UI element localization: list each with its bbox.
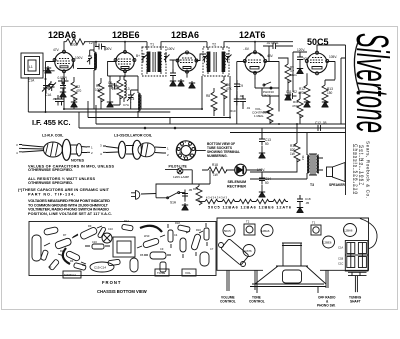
svg-text:R10: R10 bbox=[230, 109, 236, 113]
volume control R14 bbox=[252, 96, 279, 124]
svg-text:R15: R15 bbox=[193, 187, 199, 191]
svg-text:3: 3 bbox=[16, 143, 18, 147]
label tone control bbox=[249, 296, 265, 304]
cap C7A trimmer bbox=[123, 90, 135, 107]
socket 12AT6 top bbox=[243, 245, 255, 257]
svg-text:Set No. 1067: Set No. 1067 bbox=[360, 145, 365, 185]
svg-text:4700: 4700 bbox=[70, 43, 77, 47]
svg-text:12BA6: 12BA6 bbox=[261, 229, 270, 233]
svg-text:CONTROL: CONTROL bbox=[220, 300, 236, 304]
label tuning shaft bbox=[349, 296, 362, 304]
wire power line bbox=[156, 170, 210, 202]
socket 50C5 top bbox=[223, 225, 235, 237]
pilot light bbox=[165, 164, 192, 184]
cap C14 electrolytic bbox=[257, 168, 271, 197]
ground under V2 bbox=[107, 100, 113, 107]
svg-text:PILOT-LITE: PILOT-LITE bbox=[169, 164, 188, 168]
svg-text:R16: R16 bbox=[196, 228, 201, 232]
svg-text:-.6V.: -.6V. bbox=[243, 47, 250, 51]
coil L3 osc winding bbox=[131, 76, 141, 118]
cap C12 bbox=[314, 121, 327, 131]
cap C line filter bbox=[182, 188, 193, 210]
speaker top view bbox=[250, 243, 326, 293]
cap C5 pair bbox=[52, 95, 65, 106]
svg-text:T3: T3 bbox=[310, 183, 314, 187]
svg-text:1: 1 bbox=[185, 141, 187, 144]
svg-text:50: 50 bbox=[265, 142, 269, 146]
wire right rail bbox=[317, 45, 346, 195]
antenna loop L1 bbox=[21, 53, 43, 83]
ground under V5 right bbox=[322, 100, 328, 107]
svg-text:2: 2 bbox=[167, 153, 169, 157]
resistor R16 820 bbox=[250, 133, 307, 173]
svg-text:Silvertone: Silvertone bbox=[347, 33, 398, 133]
svg-text:R9: R9 bbox=[88, 224, 92, 228]
svg-text:C1A: C1A bbox=[338, 246, 343, 250]
svg-text:OTHERWISE SPECIFIED.: OTHERWISE SPECIFIED. bbox=[28, 168, 73, 172]
notes text bbox=[18, 159, 114, 216]
svg-text:R4: R4 bbox=[70, 259, 74, 263]
resistor R9 4.7 MEG bbox=[278, 58, 298, 100]
svg-text:CONTROL: CONTROL bbox=[249, 300, 265, 304]
svg-text:12BE6: 12BE6 bbox=[323, 241, 332, 245]
svg-text:JACK: JACK bbox=[263, 94, 271, 98]
resistor R15 heater drop bbox=[193, 184, 202, 205]
resistor R2 bbox=[71, 77, 82, 109]
svg-text:SELENIUM: SELENIUM bbox=[228, 180, 247, 184]
svg-text:50C5 12BA6 12BA6 12BE6 12AT6: 50C5 12BA6 12BA6 12BE6 12AT6 bbox=[208, 205, 291, 209]
svg-text:R4: R4 bbox=[72, 36, 76, 40]
svg-text:12BA6: 12BA6 bbox=[344, 229, 353, 233]
L3 coil drawing bbox=[100, 140, 169, 159]
svg-text:SPEAKER: SPEAKER bbox=[329, 183, 346, 187]
cap C2 top bbox=[95, 42, 106, 51]
cap C8 bbox=[170, 69, 176, 86]
svg-text:12AT6: 12AT6 bbox=[244, 249, 252, 253]
tube V5 50C5 bbox=[297, 48, 337, 75]
svg-text:FRONT: FRONT bbox=[102, 280, 121, 285]
cap C10 bbox=[286, 90, 297, 99]
svg-text:.01: .01 bbox=[246, 106, 251, 110]
svg-text:T1: T1 bbox=[150, 43, 154, 47]
transformer T3 top bbox=[219, 239, 250, 267]
selenium rectifier bbox=[227, 164, 262, 188]
label off radio phono sw bbox=[317, 296, 336, 308]
svg-text:1: 1 bbox=[167, 147, 169, 151]
svg-text:C4: C4 bbox=[174, 233, 178, 237]
svg-text:C3: C3 bbox=[48, 265, 52, 269]
ground antenna bbox=[45, 66, 51, 73]
tube V2 12BE6 bbox=[104, 47, 140, 73]
svg-text:4: 4 bbox=[16, 151, 18, 155]
svg-text:SHAFT: SHAFT bbox=[350, 300, 361, 304]
L2 coil drawing bbox=[16, 139, 93, 160]
cap C13 electrolytic bbox=[259, 133, 271, 159]
svg-text:.02: .02 bbox=[239, 94, 244, 98]
svg-text:.05: .05 bbox=[305, 201, 310, 205]
socket 12BA6 top right bbox=[344, 224, 357, 237]
coil L2 RF bbox=[87, 41, 97, 109]
svg-text:1W: 1W bbox=[213, 173, 218, 177]
Silvertone swash bbox=[354, 42, 359, 92]
cap C15 bbox=[263, 41, 293, 62]
svg-text:C10: C10 bbox=[108, 227, 113, 231]
resistor R18 bbox=[208, 163, 233, 177]
svg-text:12BE6: 12BE6 bbox=[112, 30, 140, 40]
resistor R11 4700 bbox=[292, 92, 303, 124]
wire screen bus bbox=[43, 62, 95, 113]
svg-text:50C5: 50C5 bbox=[307, 37, 329, 47]
svg-text:50C5: 50C5 bbox=[224, 229, 231, 233]
ground under V3 left bbox=[178, 79, 184, 86]
svg-text:4: 4 bbox=[100, 152, 102, 156]
svg-text:.005: .005 bbox=[302, 57, 308, 61]
svg-text:B+: B+ bbox=[136, 54, 140, 58]
socket 12BE6 top bbox=[323, 236, 335, 248]
resistor R6 47K bbox=[221, 76, 233, 116]
cap C18 line ground bbox=[297, 195, 311, 213]
svg-text:R8: R8 bbox=[206, 94, 210, 98]
svg-text:C9: C9 bbox=[239, 84, 243, 88]
svg-text:C15-C14: C15-C14 bbox=[94, 266, 106, 270]
resistor R5 22K bbox=[112, 76, 123, 105]
svg-text:R12: R12 bbox=[124, 219, 129, 223]
svg-text:NUMBERING.: NUMBERING. bbox=[207, 154, 228, 158]
cap C3 bbox=[58, 76, 69, 84]
svg-text:R2: R2 bbox=[60, 249, 64, 253]
svg-text:C1A: C1A bbox=[45, 93, 52, 97]
svg-text:I.F. 455 KC.: I.F. 455 KC. bbox=[32, 118, 71, 127]
junction dots top rail bbox=[95, 41, 256, 43]
tube V1 12BA6 bbox=[53, 48, 83, 73]
svg-text:W10: W10 bbox=[144, 234, 150, 238]
ground under V5 left bbox=[304, 100, 310, 107]
IF transformer T1 bbox=[142, 43, 170, 77]
IF can T1 top bbox=[311, 221, 321, 236]
svg-text:140V.: 140V. bbox=[257, 168, 265, 172]
svg-text:0.05(*): 0.05(*) bbox=[58, 76, 68, 80]
svg-text:4 3 4 3 4 3 4: 4 3 4 3 4 3 4 3 4 3 bbox=[206, 196, 227, 200]
tube V3 12BA6 (IF amp) bbox=[167, 47, 198, 73]
svg-text:C16: C16 bbox=[92, 240, 97, 244]
svg-text:120V.LAMP: 120V.LAMP bbox=[173, 175, 189, 179]
control shafts bbox=[227, 270, 328, 291]
IF transformer T2 bbox=[203, 43, 232, 77]
ground under V3 right bbox=[189, 81, 195, 88]
svg-text:100V.: 100V. bbox=[167, 47, 175, 51]
output transformer T3 bbox=[250, 146, 323, 187]
resistor R13 150 bbox=[322, 62, 335, 105]
svg-text:C7: C7 bbox=[210, 247, 214, 251]
wire AVC bus rails bbox=[28, 71, 345, 128]
svg-text:Chassis 528.210: Chassis 528.210 bbox=[354, 144, 359, 194]
svg-text:1: 1 bbox=[91, 146, 93, 150]
svg-text:.05: .05 bbox=[322, 121, 327, 125]
svg-text:C1C: C1C bbox=[338, 262, 343, 266]
chassis bottom view box bbox=[29, 222, 216, 276]
svg-text:47V.: 47V. bbox=[53, 48, 60, 52]
resistor R8 bbox=[206, 88, 217, 116]
cap R10 coupling bbox=[230, 72, 251, 125]
svg-text:12AT6: 12AT6 bbox=[239, 30, 265, 40]
speaker bbox=[327, 163, 346, 188]
svg-text:R18: R18 bbox=[212, 163, 218, 167]
svg-text:.05: .05 bbox=[52, 97, 57, 101]
svg-text:POSITION, LINE VOLTAGE SET AT: POSITION, LINE VOLTAGE SET AT 117 V.A.C. bbox=[28, 212, 112, 216]
svg-text:C12: C12 bbox=[315, 121, 321, 125]
svg-text:RECTIFIER: RECTIFIER bbox=[227, 185, 246, 189]
svg-text:50: 50 bbox=[265, 181, 269, 185]
wire detector section bbox=[237, 52, 307, 112]
cap C16 bbox=[297, 52, 309, 74]
svg-text:150: 150 bbox=[327, 91, 333, 95]
svg-text:NOTES: NOTES bbox=[71, 159, 85, 163]
heater string bbox=[199, 196, 291, 210]
svg-text:C1A: C1A bbox=[28, 79, 35, 83]
tube V4 12AT6 bbox=[243, 47, 274, 74]
tube socket bottom view bbox=[176, 141, 205, 160]
cap C2 trimmer bbox=[49, 81, 57, 91]
ground under V1 bbox=[71, 100, 77, 107]
socket 12BA6 top bbox=[261, 225, 273, 237]
svg-text:.05: .05 bbox=[188, 188, 193, 192]
credits Sears Roebuck bbox=[354, 141, 371, 198]
svg-text:L2-R.F. COIL: L2-R.F. COIL bbox=[42, 134, 64, 138]
svg-text:47K: 47K bbox=[226, 87, 233, 91]
svg-text:T2: T2 bbox=[246, 220, 250, 224]
bottom view parts bbox=[32, 219, 214, 278]
svg-text:TONE: TONE bbox=[157, 271, 165, 275]
cap C9 bbox=[234, 80, 243, 99]
svg-text:4700: 4700 bbox=[292, 104, 299, 108]
phono switch bbox=[263, 82, 275, 98]
svg-text:C7A: C7A bbox=[123, 103, 129, 107]
cap C1A variable trimmer bbox=[42, 83, 52, 97]
wire B+ bus bbox=[170, 117, 346, 143]
svg-text:L1: L1 bbox=[29, 65, 33, 69]
svg-text:PART NO. TIF-134.: PART NO. TIF-134. bbox=[28, 192, 75, 196]
svg-text:1 MEG.: 1 MEG. bbox=[254, 114, 264, 118]
wire top rail bbox=[64, 42, 293, 53]
svg-text:45V.: 45V. bbox=[267, 54, 274, 58]
label tube socket note bbox=[207, 142, 240, 158]
IF can T2 top bbox=[244, 220, 255, 236]
svg-text:22K: 22K bbox=[112, 87, 119, 91]
svg-text:R6: R6 bbox=[140, 253, 144, 257]
svg-text:Sears, Roebuck & Co.: Sears, Roebuck & Co. bbox=[366, 141, 371, 198]
svg-text:OTHERWISE SPECIFIED.: OTHERWISE SPECIFIED. bbox=[28, 181, 73, 185]
svg-text:T2: T2 bbox=[212, 43, 216, 47]
svg-text:R7: R7 bbox=[63, 233, 67, 237]
tuning capacitor top view bbox=[338, 241, 368, 293]
svg-text:3: 3 bbox=[100, 144, 102, 148]
junction dots bbox=[45, 78, 299, 129]
svg-text:L3: L3 bbox=[126, 87, 130, 91]
label volume control bbox=[220, 296, 236, 304]
cap C6 bbox=[108, 81, 119, 89]
svg-text:VOL: VOL bbox=[185, 271, 191, 275]
svg-text:12BA6: 12BA6 bbox=[171, 30, 199, 40]
cap C4 bbox=[60, 82, 66, 98]
svg-text:1W: 1W bbox=[290, 152, 295, 156]
svg-text:470K: 470K bbox=[298, 91, 306, 95]
svg-text:120V.: 120V. bbox=[297, 48, 305, 52]
svg-text:T1: T1 bbox=[312, 221, 316, 225]
AC plug bbox=[131, 191, 156, 200]
svg-text:PRI.: PRI. bbox=[301, 155, 305, 160]
chassis top view box bbox=[217, 218, 377, 270]
resistor R4 bbox=[66, 36, 85, 47]
svg-text:CHASSIS BOTTOM VIEW: CHASSIS BOTTOM VIEW bbox=[97, 289, 147, 294]
coil L3 oscillator bbox=[124, 76, 130, 102]
wire T1 to V3 bbox=[170, 54, 204, 72]
svg-text:PHONO SW.: PHONO SW. bbox=[317, 304, 336, 308]
resistor R12 470K bbox=[298, 73, 310, 104]
wire osc section bbox=[108, 62, 138, 110]
svg-text:.02 MFD.: .02 MFD. bbox=[266, 41, 279, 45]
svg-text:R18: R18 bbox=[175, 221, 180, 225]
resistor R3 100K bbox=[95, 78, 104, 109]
svg-text:C1B: C1B bbox=[338, 257, 343, 261]
svg-text:C9: C9 bbox=[160, 247, 164, 251]
svg-text:470: 470 bbox=[76, 89, 82, 93]
svg-text:105V.: 105V. bbox=[329, 55, 337, 59]
svg-text:100V.: 100V. bbox=[75, 56, 83, 60]
switch S1A bbox=[156, 192, 180, 205]
svg-text:S1A: S1A bbox=[170, 201, 177, 205]
svg-text:SWITCH: SWITCH bbox=[64, 273, 76, 277]
svg-text:L3-OSCILLATOR COIL: L3-OSCILLATOR COIL bbox=[114, 134, 153, 138]
svg-text:100K: 100K bbox=[95, 88, 103, 92]
svg-text:2: 2 bbox=[91, 151, 93, 155]
